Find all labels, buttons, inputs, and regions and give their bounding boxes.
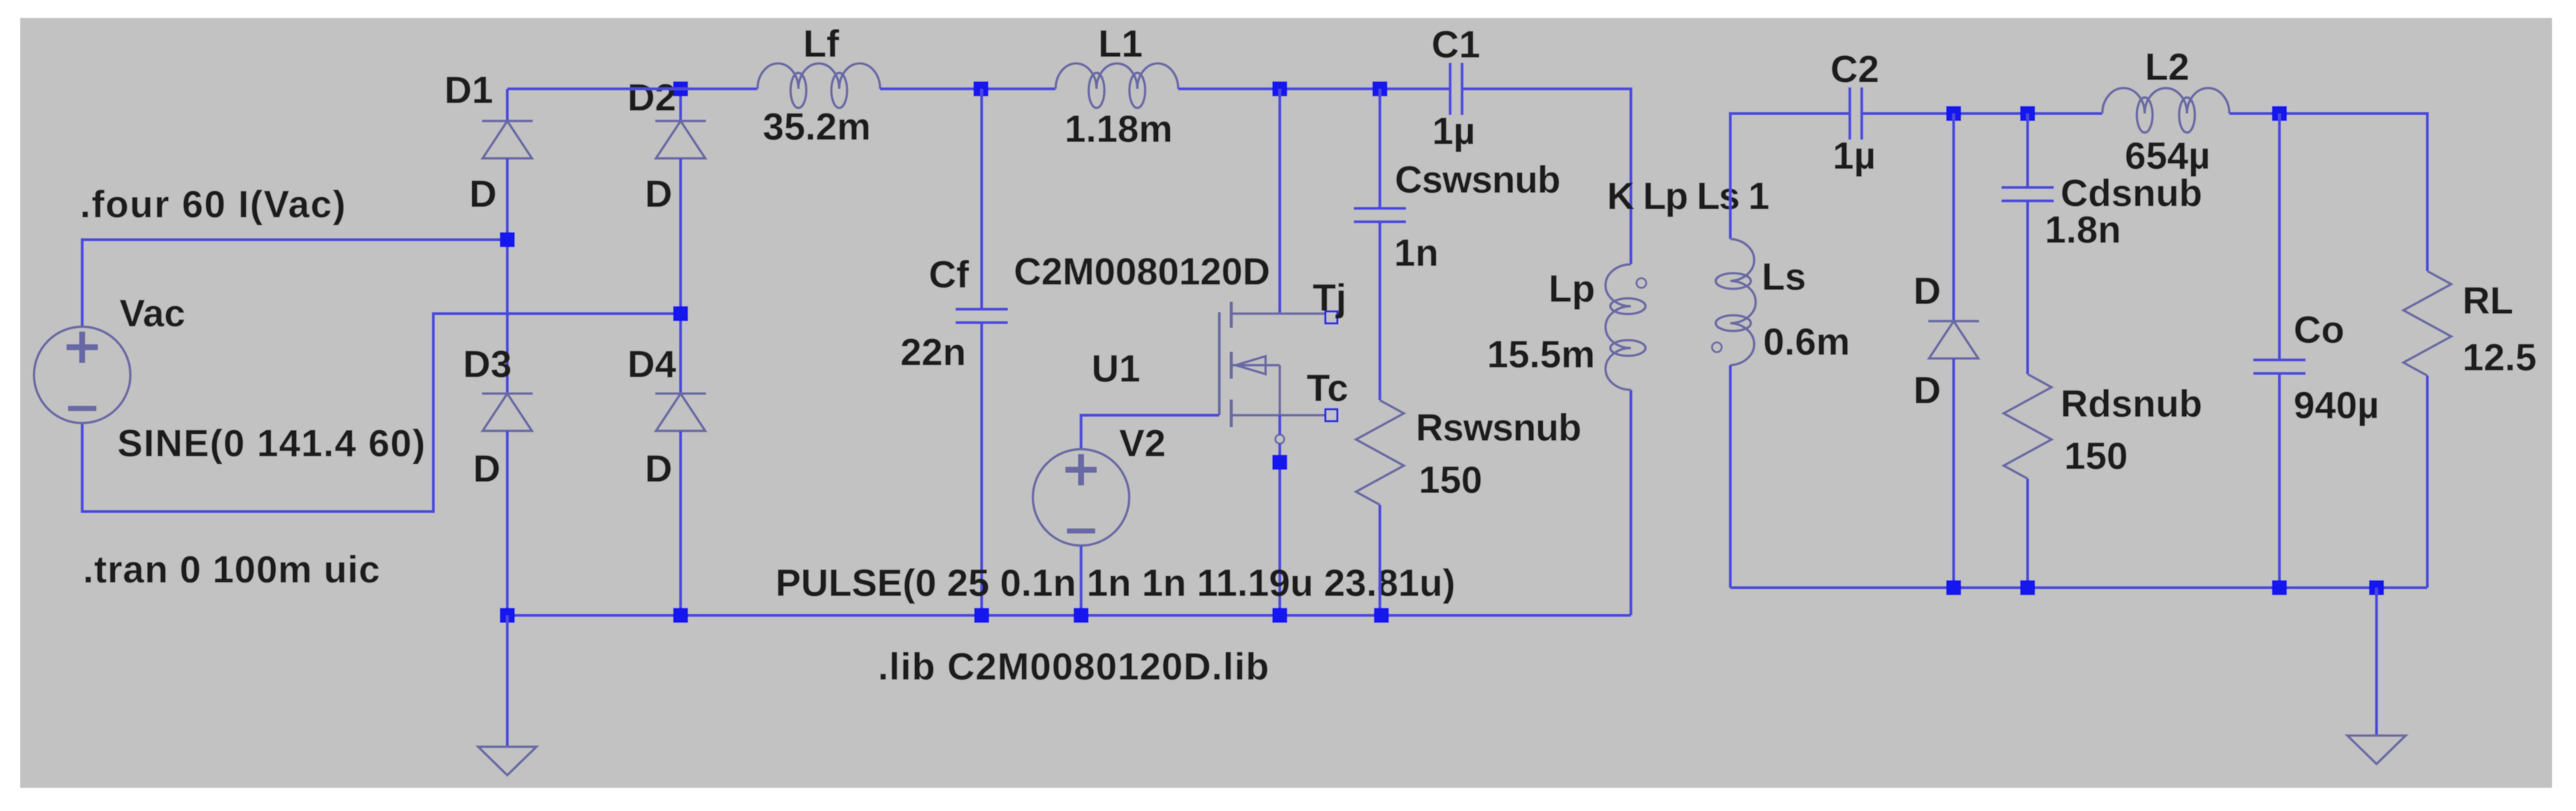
wire Lp lower to bottom rail [1629, 390, 1632, 615]
wire D1-D3 column [506, 158, 509, 394]
wire D1 column upper [506, 89, 509, 121]
junction bottom Cf [974, 608, 989, 623]
label Rdsnub [2061, 382, 2202, 425]
svg-text:1.8n: 1.8n [2045, 208, 2121, 251]
value C2M0080120D [1014, 250, 1270, 293]
inductor Lp [1606, 264, 1646, 390]
label D4 [628, 343, 677, 385]
junction bottom D4 [673, 608, 688, 623]
directive K Lp Ls 1 [1607, 175, 1768, 217]
wire L1 to C1 [1178, 87, 1450, 90]
wire ground stem left [506, 615, 509, 747]
value 22n [900, 331, 966, 373]
wire source to bottom rail [1278, 444, 1281, 615]
value 1.18m [1065, 108, 1173, 150]
svg-text:22n: 22n [900, 331, 966, 373]
value 150 of Rdsnub [2064, 435, 2128, 477]
value 940u [2294, 384, 2379, 426]
value 150 of Rswsnub [1419, 459, 1482, 501]
value D output [1913, 369, 1941, 411]
inductor Ls [1716, 239, 1756, 365]
capacitor Cf [956, 309, 1008, 323]
svg-text:Lf: Lf [803, 22, 840, 65]
wire Cdsnub upper [2026, 114, 2029, 187]
resistor Rswsnub [1356, 400, 1404, 505]
junction bottom D3 [500, 608, 515, 623]
junction D top [1946, 106, 1961, 121]
wire source upper [1278, 415, 1281, 435]
label U1 [1092, 347, 1140, 390]
directive .tran 0 100m uic [83, 548, 380, 591]
wire D3 to bottom rail [506, 431, 509, 615]
value 0.6m [1763, 320, 1850, 363]
capacitor C1 [1450, 63, 1462, 115]
svg-text:L1: L1 [1098, 22, 1143, 65]
inductor Lf [758, 63, 880, 108]
value 1u of C1 [1432, 110, 1476, 152]
svg-text:SINE(0 141.4 60): SINE(0 141.4 60) [117, 422, 426, 464]
value PULSE of V2 [775, 562, 1455, 604]
junction bottom Rswsnub [1374, 608, 1389, 623]
svg-text:D: D [469, 173, 497, 215]
svg-text:Rswsnub: Rswsnub [1416, 406, 1581, 449]
label V2 [1119, 422, 1165, 464]
ground right [2347, 736, 2406, 764]
svg-text:K Lp Ls 1: K Lp Ls 1 [1607, 175, 1768, 217]
label Cdsnub [2061, 172, 2202, 214]
svg-text:C1: C1 [1431, 23, 1480, 66]
wire Cswsnub upper [1378, 89, 1381, 208]
resistor RL [2403, 271, 2451, 376]
label Cf [929, 253, 970, 296]
value D of D4 [645, 447, 672, 490]
wire D4 to bottom rail [679, 431, 682, 615]
junction bottom Rdsnub [2020, 580, 2035, 595]
wire drain column [1278, 89, 1281, 314]
svg-text:D1: D1 [445, 69, 493, 111]
junction bottom V2 [1074, 608, 1089, 623]
label L2 [2145, 46, 2190, 88]
value 1u of C2 [1833, 134, 1876, 177]
wire top rail bridge to Lf [507, 87, 758, 90]
wire C2 to L2 [1862, 112, 2102, 115]
wire D column lower [1952, 358, 1955, 588]
label Tj [1313, 276, 1346, 319]
svg-text:Cswsnub: Cswsnub [1395, 158, 1560, 201]
label Ls [1762, 255, 1806, 298]
wire Co upper [2278, 114, 2281, 360]
capacitor Co [2253, 360, 2306, 373]
phase dot Lp [1637, 279, 1647, 288]
wire Cswsnub to Rswsnub [1378, 222, 1381, 400]
junction D2 top [673, 81, 688, 96]
svg-text:150: 150 [1419, 459, 1482, 501]
svg-text:C2: C2 [1830, 48, 1879, 90]
svg-text:Lp: Lp [1549, 267, 1595, 310]
capacitor C2 [1850, 87, 1862, 140]
wire secondary bottom rail [1730, 586, 2427, 589]
label D output [1913, 270, 1941, 312]
junction Cf top node [973, 81, 988, 96]
wire Rdsnub to bottom rail [2026, 479, 2029, 588]
value D of D2 [645, 173, 672, 215]
label RL [2462, 279, 2513, 322]
value SINE(0 141.4 60) [117, 422, 426, 464]
svg-text:0.6m: 0.6m [1763, 320, 1850, 363]
junction bottom Co [2272, 580, 2287, 595]
wire RL to bottom rail [2426, 376, 2429, 588]
svg-text:.lib C2M0080120D.lib: .lib C2M0080120D.lib [878, 645, 1270, 688]
capacitor Cswsnub [1354, 208, 1406, 222]
svg-text:12.5: 12.5 [2462, 336, 2536, 379]
label Vac [120, 292, 185, 335]
label Lf [803, 22, 840, 65]
capacitor Cdsnub [2001, 187, 2054, 201]
svg-text:654µ: 654µ [2125, 134, 2210, 177]
diode D2 [655, 121, 706, 158]
junction bridge right AC node [673, 306, 688, 321]
wire L2 to RL corner [2229, 114, 2427, 271]
wire C1 to primary corner [1462, 89, 1631, 264]
wire D2-D4 column [679, 158, 682, 394]
svg-text:Rdsnub: Rdsnub [2061, 382, 2202, 425]
junction bottom source [1272, 608, 1287, 623]
svg-text:1µ: 1µ [1432, 110, 1476, 152]
label D1 [445, 69, 493, 111]
pin Tc port [1325, 409, 1337, 421]
wire Cf lower [980, 323, 983, 615]
wire V2 to bottom rail [1080, 546, 1083, 615]
svg-text:35.2m: 35.2m [763, 105, 871, 148]
wire D column upper [1952, 114, 1955, 321]
svg-text:D: D [645, 447, 672, 490]
wire ground stem right [2375, 588, 2378, 736]
svg-text:1µ: 1µ [1833, 134, 1876, 177]
label D2 [628, 76, 676, 119]
value D of D3 [473, 447, 501, 490]
ground left [478, 747, 536, 775]
svg-text:D: D [1913, 369, 1941, 411]
svg-text:1n: 1n [1394, 232, 1439, 274]
svg-text:15.5m: 15.5m [1487, 333, 1595, 376]
junction ground tap right [2369, 580, 2384, 595]
wire Co lower [2278, 373, 2281, 588]
junction Co top [2272, 106, 2287, 121]
phase dot Ls [1712, 343, 1722, 352]
wire Ls lower [1729, 365, 1732, 588]
label Rswsnub [1416, 406, 1581, 449]
svg-text:Ls: Ls [1762, 255, 1806, 298]
svg-text:Co: Co [2294, 308, 2344, 351]
svg-text:U1: U1 [1092, 347, 1140, 390]
value 35.2m [763, 105, 871, 148]
diode D3 [482, 394, 533, 431]
diode D1 [482, 121, 533, 158]
junction bridge left AC node [500, 232, 515, 247]
svg-text:150: 150 [2064, 435, 2128, 477]
label D3 [463, 343, 512, 385]
value 15.5m [1487, 333, 1595, 376]
svg-text:Cf: Cf [929, 253, 970, 296]
diode D4 [655, 394, 706, 431]
svg-text:.tran 0 100m uic: .tran 0 100m uic [83, 548, 380, 591]
transistor U1 MOSFET [1219, 302, 1325, 444]
voltage source V2 [1033, 450, 1130, 546]
svg-text:940µ: 940µ [2294, 384, 2379, 426]
svg-text:C2M0080120D: C2M0080120D [1014, 250, 1270, 293]
svg-text:.four 60 I(Vac): .four 60 I(Vac) [80, 183, 347, 226]
svg-text:D4: D4 [628, 343, 677, 385]
wire Lf to Cf node [880, 87, 1056, 90]
svg-text:RL: RL [2462, 279, 2513, 322]
svg-text:L2: L2 [2145, 46, 2190, 88]
svg-text:D: D [473, 447, 501, 490]
svg-text:Vac: Vac [120, 292, 185, 335]
label Tc [1307, 367, 1349, 409]
junction Cdsnub top [2020, 106, 2035, 121]
label Co [2294, 308, 2344, 351]
svg-text:Tc: Tc [1307, 367, 1349, 409]
svg-text:D: D [1913, 270, 1941, 312]
junction source node [1272, 455, 1287, 470]
wire Vac- to bridge node [82, 314, 681, 512]
junction bottom D [1946, 580, 1961, 595]
wire gate to V2 [1081, 415, 1219, 449]
value 12.5 [2462, 336, 2536, 379]
value D of D1 [469, 173, 497, 215]
junction Cswsnub top node [1372, 81, 1387, 96]
wire D2 column upper [679, 89, 682, 121]
inductor L1 [1056, 63, 1178, 108]
wire Cf upper [980, 89, 983, 309]
wire Cdsnub to Rdsnub [2026, 201, 2029, 374]
value 1.8n [2045, 208, 2121, 251]
label C1 [1431, 23, 1480, 66]
wire Ls upper [1730, 114, 1850, 239]
svg-text:1.18m: 1.18m [1065, 108, 1173, 150]
directive .four 60 I(Vac) [80, 183, 347, 226]
svg-text:D3: D3 [463, 343, 512, 385]
svg-text:D: D [645, 173, 672, 215]
diode D output [1928, 321, 1979, 358]
svg-text:V2: V2 [1119, 422, 1165, 464]
wire Vac+ to bridge node [82, 240, 507, 327]
label C2 [1830, 48, 1879, 90]
inductor L2 [2102, 88, 2229, 133]
label Lp [1549, 267, 1595, 310]
svg-text:D2: D2 [628, 76, 676, 119]
svg-text:PULSE(0 25 0.1n 1n 1n 11.19u 2: PULSE(0 25 0.1n 1n 1n 11.19u 23.81u) [775, 562, 1455, 604]
voltage source Vac [34, 327, 131, 423]
junction drain top node [1272, 81, 1287, 96]
value 654u [2125, 134, 2210, 177]
directive .lib [878, 645, 1270, 688]
label Cswsnub [1395, 158, 1560, 201]
wire Rswsnub to bottom rail [1378, 505, 1381, 615]
wire primary bottom rail [507, 614, 1631, 617]
label L1 [1098, 22, 1143, 65]
value 1n of Cswsnub [1394, 232, 1439, 274]
svg-text:Tj: Tj [1313, 276, 1346, 319]
resistor Rdsnub [2004, 374, 2052, 479]
pin Tj port [1325, 311, 1337, 323]
